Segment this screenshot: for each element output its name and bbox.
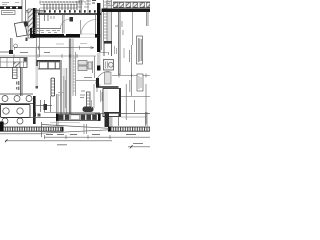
door opening sill lines: [80, 34, 95, 38]
column circle symbol: [14, 44, 18, 48]
door arc 1: [61, 19, 71, 29]
thin wall line: [57, 94, 59, 126]
hatched column below counter: [13, 68, 18, 79]
vertical dim line right-middle: [131, 45, 133, 74]
stair dimension lines top: [40, 1, 80, 9]
chairs bottom row: [2, 118, 8, 124]
top-left wall band with slits: [0, 6, 22, 9]
wall piece right of door opening: [95, 34, 100, 38]
chairs top row: [2, 96, 8, 102]
right room vertical wall double: [119, 12, 121, 75]
door arc 2 lower: [96, 71, 110, 84]
door leaf dark blob bath: [23, 21, 28, 27]
corridor wall lines center: [60, 60, 62, 114]
right wall hatched strip lines: [104, 0, 112, 41]
door threshold gray in wall: [97, 53, 100, 66]
kitchen counter gray band: [38, 62, 61, 70]
WC bowl dark: [83, 107, 94, 113]
wall drop below main wall: [26, 38, 28, 41]
small fixture ticks bottom center-left: [36, 96, 52, 112]
kitchen counter left with hatched appliances: [0, 58, 27, 68]
bottom-right room lines: [125, 84, 127, 120]
main horizontal wall: [30, 34, 80, 38]
left dimension line: [0, 53, 96, 59]
WC column hatched: [87, 92, 91, 107]
right wall fixtures column: [96, 44, 119, 87]
small table with chairs center: [78, 61, 87, 66]
tiny text above: [58, 93, 64, 96]
vertical text left of rect: [101, 90, 103, 102]
bottom dimension line main: [45, 135, 151, 139]
middle dimension line upper: [14, 44, 94, 50]
wall right of table: [33, 96, 36, 124]
label box top-left: [2, 11, 16, 15]
rotated room label 6M: [17, 81, 19, 90]
tiny dim text top-right: [106, 2, 113, 6]
plates on table: [3, 108, 9, 114]
rotated text bottom right: [134, 100, 136, 112]
kitchen top wall edge: [37, 60, 61, 62]
terrace diagonal wedges: [0, 122, 109, 137]
small black block left: [9, 50, 13, 54]
bottom long dimension line: [5, 140, 112, 142]
small dim text right room: [115, 21, 123, 35]
stair side double line: [80, 0, 81, 15]
WC top marks: [80, 91, 85, 98]
right edge double line: [147, 12, 149, 26]
top-left tiny text: [2, 3, 19, 5]
label box bottom right: [137, 74, 143, 91]
door arc 2: [81, 20, 97, 36]
small ticks below stringer: [51, 16, 54, 19]
radiator vertical: [51, 78, 55, 96]
vertical label box right: [137, 36, 143, 64]
left mid wall lines: [0, 38, 12, 52]
terrace inner vertical marks: [84, 124, 87, 134]
dim text rows right of stair: [78, 0, 96, 14]
south lower wall band right segment: [108, 127, 150, 131]
south lower wall band left segment: [0, 122, 64, 132]
tiny dash row along wall: [34, 31, 60, 33]
stair posts: [45, 15, 49, 21]
shower tilted rect: [14, 22, 27, 37]
bottom right dim line 2: [128, 146, 150, 148]
wall approach line: [30, 117, 56, 119]
door header line: [99, 53, 109, 56]
hatched duct column left: [28, 9, 33, 38]
wall black bar left column: [33, 8, 36, 38]
stair nosing tick blocks: [44, 10, 96, 12]
fridge label rotated dashes: [64, 76, 66, 112]
wall block left of band: [96, 78, 99, 88]
kitchen left wall edge: [37, 60, 38, 67]
bottom right wall lines: [104, 112, 121, 114]
counter edge lines: [0, 94, 33, 104]
door jamb line 2: [80, 20, 82, 34]
stair stringer dark line: [38, 13, 101, 15]
wall lines upper-left: [26, 11, 44, 13]
south window wall band upper: [56, 114, 101, 121]
wall corner piece: [30, 28, 32, 35]
dining table left: [1, 105, 31, 118]
gray bar left of radiator: [36, 66, 39, 86]
thin lines flanking vertical wall: [96, 12, 102, 50]
small marks 40: [97, 85, 101, 92]
line right of WC: [93, 84, 95, 108]
kitchen counters white: [40, 62, 48, 69]
terrace edge line: [50, 122, 80, 124]
bottom center text: [57, 144, 67, 146]
door leaf 1 dark: [70, 17, 74, 22]
corridor gray strip: [63, 68, 67, 114]
ladder duct strip left: [37, 8, 40, 57]
main vertical wall black: [97, 3, 100, 52]
right strip cap dark: [104, 41, 113, 44]
partition line upper room: [30, 28, 61, 30]
bottom dim texts: [46, 134, 136, 136]
west kitchen wall gray line: [35, 48, 37, 88]
center vertical dim line: [94, 56, 96, 78]
large rect bottom right of center: [103, 89, 121, 117]
top-right window hatch band: [113, 2, 150, 8]
vertical dim bottom right: [131, 74, 133, 96]
room label text vertical right: [115, 46, 125, 58]
left wall below counter: [21, 68, 23, 97]
door jambs hall: [63, 15, 65, 34]
kitchen counter front edge: [38, 68, 61, 70]
valve dark blob: [44, 104, 48, 110]
right thin partition: [132, 12, 134, 45]
south wall L junction dark: [105, 112, 110, 127]
right wall hatched strip gray fill: [107, 0, 112, 41]
washing machine with circle: [104, 60, 114, 71]
top-right thick dark wall band: [102, 9, 151, 13]
small dark block on counter: [47, 60, 49, 63]
wall segment below door: [97, 66, 100, 71]
top-left room walls: [22, 0, 26, 34]
dim line across right rooms: [112, 74, 150, 78]
marks below wall: [34, 113, 37, 117]
center horizontal dim: [76, 80, 98, 82]
stair treads: [44, 4, 77, 11]
